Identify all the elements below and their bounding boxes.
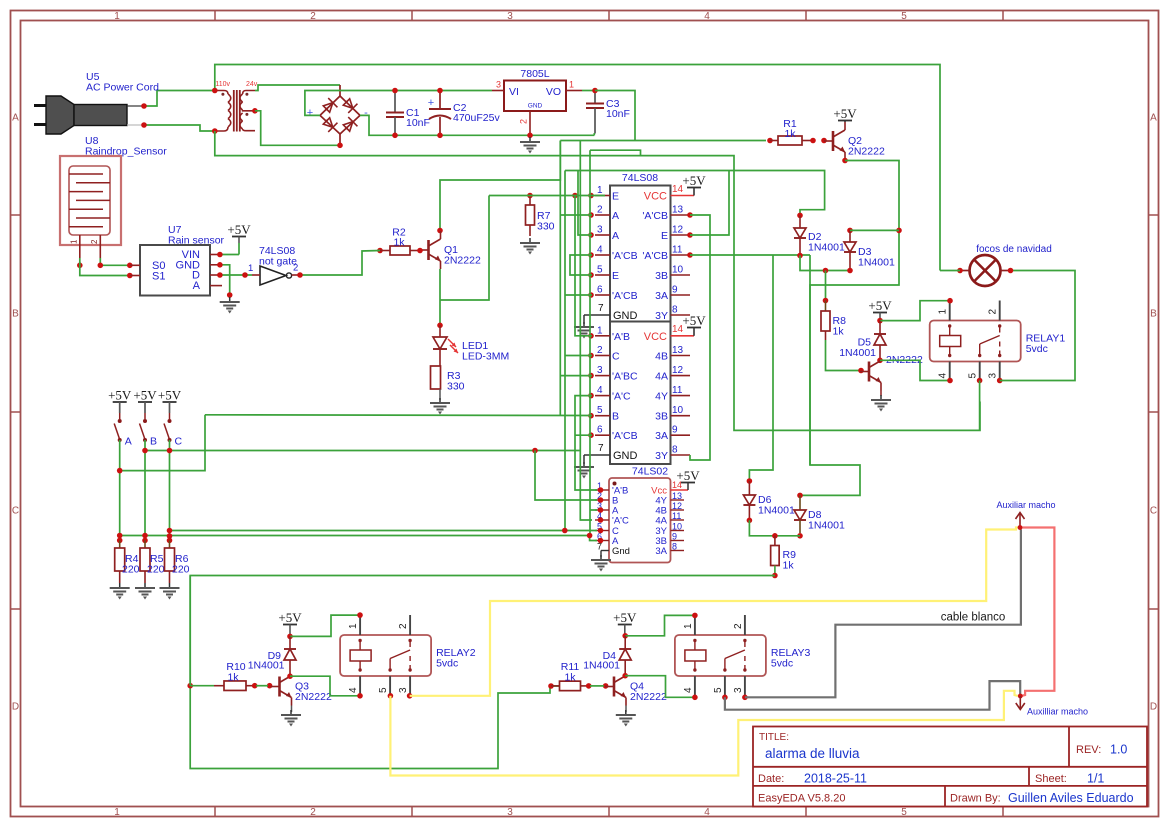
wire gray relay3 pin5 — [725, 681, 1020, 710]
svg-text:1N4001: 1N4001 — [808, 242, 845, 254]
svg-text:2: 2 — [519, 119, 529, 124]
svg-text:5: 5 — [597, 265, 603, 276]
svg-text:GND: GND — [613, 450, 638, 462]
wire v810 D8 top — [809, 255, 811, 465]
wire pin3 74LS02 — [590, 509, 597, 511]
ground U7 — [229, 297, 231, 302]
svg-text:+5V: +5V — [833, 106, 857, 121]
relay RELAY2 — [340, 635, 431, 676]
resistor R7 — [529, 197, 531, 205]
wire yellow relay2 pin3 to aux connector — [410, 528, 1020, 696]
svg-text:110v: 110v — [215, 81, 230, 88]
wire primary bottom to long rail y155 — [215, 131, 980, 430]
transistor Q5 2N2222 — [868, 362, 871, 382]
svg-text:1N4001: 1N4001 — [248, 660, 285, 672]
svg-text:4: 4 — [704, 807, 710, 818]
svg-text:+5V: +5V — [278, 610, 302, 625]
svg-text:4: 4 — [348, 687, 359, 693]
svg-text:2N2222: 2N2222 — [444, 255, 481, 267]
connector Auxilliar macho bottom — [1018, 694, 1023, 699]
svg-text:'A'CB: 'A'CB — [612, 290, 638, 302]
node R10 junction — [187, 683, 193, 689]
wire switch B bus — [145, 450, 580, 452]
diode D6 1N4001 — [747, 478, 753, 484]
svg-text:1N4001: 1N4001 — [808, 520, 845, 532]
svg-text:1: 1 — [70, 239, 79, 244]
ground Q3 — [290, 710, 292, 715]
svg-text:1k: 1k — [784, 128, 796, 140]
svg-text:A: A — [12, 113, 19, 124]
svg-text:4: 4 — [597, 245, 603, 256]
wire plug to transformer primary top — [144, 91, 215, 107]
svg-text:13: 13 — [672, 345, 684, 356]
svg-text:EasyEDA V5.8.20: EasyEDA V5.8.20 — [758, 793, 845, 805]
svg-text:3: 3 — [597, 225, 603, 236]
svg-text:+5V: +5V — [868, 298, 892, 313]
wire collector to relay1 pin4 — [880, 360, 950, 380]
svg-text:'A'BC: 'A'BC — [612, 371, 638, 383]
wire collector to relay2 pin4 — [290, 676, 360, 696]
svg-text:3B: 3B — [655, 270, 668, 282]
svg-text:1k: 1k — [227, 672, 239, 684]
svg-text:1: 1 — [348, 623, 359, 629]
wire Q2 emitter down right bus — [800, 161, 899, 496]
node switch junctions — [142, 448, 148, 454]
node IC1 right pins — [687, 212, 693, 218]
wire pin5 74LS02 C bus — [170, 530, 597, 532]
node Q2 emitter — [842, 158, 848, 164]
svg-text:'A'CB: 'A'CB — [642, 250, 668, 262]
svg-text:9: 9 — [672, 285, 678, 296]
resistor R1 — [767, 138, 773, 144]
svg-text:A: A — [612, 230, 619, 242]
svg-text:'A'C: 'A'C — [612, 516, 629, 527]
svg-text:220: 220 — [122, 564, 140, 576]
svg-text:alarma de lluvia: alarma de lluvia — [765, 746, 860, 761]
svg-text:C: C — [612, 351, 620, 363]
wire secondary top to bridge — [255, 85, 340, 91]
svg-text:+5V: +5V — [676, 468, 700, 483]
svg-text:7: 7 — [598, 443, 604, 454]
svg-text:5: 5 — [713, 687, 724, 693]
wire VIN — [220, 254, 239, 256]
wire U8 pin1 to S1 — [80, 258, 130, 276]
relay RELAY1 — [930, 321, 1021, 362]
svg-text:E: E — [612, 191, 619, 203]
node 7805 gnd — [527, 133, 533, 139]
wire top rail — [215, 65, 940, 271]
svg-text:2N2222: 2N2222 — [630, 691, 667, 703]
svg-text:1: 1 — [248, 263, 253, 274]
wire yellow relay2 pin5 bottom run — [390, 691, 1018, 776]
wire pin2 IC2 — [565, 355, 592, 357]
wire plug to transformer primary bottom — [144, 125, 215, 131]
svg-text:C: C — [12, 506, 19, 517]
svg-text:12: 12 — [672, 225, 684, 236]
svg-text:AC Power Cord: AC Power Cord — [86, 82, 159, 94]
wire v580 — [580, 141, 592, 521]
wire D6 D8 bottoms to R9 — [749, 520, 800, 536]
wire IC1 pin12 up — [690, 171, 729, 236]
ground R6 — [169, 583, 171, 588]
ground IC2 pin7 — [583, 455, 585, 464]
svg-text:+5V: +5V — [227, 222, 251, 237]
svg-text:D: D — [12, 702, 19, 713]
capacitor C1 — [394, 92, 396, 113]
svg-text:1: 1 — [683, 623, 694, 629]
svg-text:2018-25-11: 2018-25-11 — [804, 772, 867, 786]
ground R5 — [144, 583, 146, 588]
svg-text:2N2222: 2N2222 — [295, 691, 332, 703]
node relay3 pins — [692, 613, 698, 619]
svg-text:+: + — [428, 97, 434, 109]
ground R7 — [529, 238, 531, 243]
svg-text:+5V: +5V — [158, 388, 182, 403]
diode D5 1N4001 — [879, 321, 881, 334]
wire v590 bus — [589, 150, 591, 535]
title block — [753, 727, 1147, 807]
svg-text:B: B — [150, 436, 157, 448]
svg-text:A: A — [612, 210, 619, 222]
node transformer pins — [212, 88, 218, 94]
svg-text:5: 5 — [378, 687, 389, 693]
resistor R9 — [774, 536, 776, 546]
svg-text:focos de navidad: focos de navidad — [976, 244, 1052, 255]
wire IC1 pin13 to IC2 pin8 — [690, 215, 710, 460]
relay RELAY3 — [675, 635, 766, 676]
svg-text:8: 8 — [672, 305, 678, 316]
wire v565 bus — [564, 171, 566, 531]
svg-text:5vdc: 5vdc — [1026, 343, 1048, 355]
svg-text:2: 2 — [90, 239, 99, 244]
svg-text:C: C — [175, 436, 183, 448]
node U8 pins — [77, 263, 83, 269]
svg-text:VCC: VCC — [644, 331, 667, 343]
svg-text:13: 13 — [672, 205, 684, 216]
wire v560 bus — [559, 141, 561, 416]
svg-text:2: 2 — [293, 263, 298, 274]
svg-text:B: B — [12, 309, 19, 320]
wire IC1 pin11 right — [690, 254, 810, 256]
svg-text:S1: S1 — [152, 270, 165, 282]
node bridge bottom — [337, 143, 343, 149]
wire A bus to pin6 74LS02 — [120, 536, 597, 541]
wire relay1 pin5 down — [979, 381, 981, 431]
svg-text:+5V: +5V — [682, 173, 706, 188]
svg-text:11: 11 — [672, 385, 683, 396]
svg-text:220: 220 — [172, 564, 190, 576]
svg-text:VO: VO — [546, 86, 561, 98]
svg-text:5: 5 — [901, 807, 907, 818]
wire lamp left to top rail — [940, 270, 960, 272]
ground 7805 — [529, 137, 531, 142]
svg-text:REV:: REV: — [1076, 744, 1101, 756]
svg-text:+5V: +5V — [613, 610, 637, 625]
wire switch A to bus — [120, 415, 205, 471]
diode D4 1N4001 — [624, 636, 626, 649]
transistor Q2 2N2222 — [832, 131, 835, 151]
wire bridge - to bottom rail — [360, 115, 594, 135]
svg-text:2N2222: 2N2222 — [848, 146, 885, 158]
svg-text:1k: 1k — [564, 672, 576, 684]
svg-text:A: A — [1150, 113, 1157, 124]
svg-text:11: 11 — [672, 511, 681, 521]
svg-text:Drawn By:: Drawn By: — [950, 793, 1001, 805]
svg-text:3: 3 — [988, 373, 999, 379]
svg-text:8: 8 — [672, 445, 678, 456]
svg-text:7: 7 — [598, 303, 604, 314]
resistor R11 — [548, 683, 554, 689]
bridge rectifier B1 — [339, 85, 341, 96]
svg-text:1k: 1k — [393, 237, 405, 249]
svg-text:3: 3 — [507, 11, 513, 22]
svg-text:-: - — [364, 107, 368, 119]
svg-text:cable blanco: cable blanco — [941, 612, 1006, 624]
node IC2 left pins — [588, 333, 594, 339]
svg-text:2: 2 — [733, 623, 744, 629]
svg-text:B: B — [612, 411, 619, 423]
ground 74LS02 — [600, 551, 602, 558]
svg-text:1N4001: 1N4001 — [583, 660, 620, 672]
wire VO to R1 rail — [595, 91, 635, 141]
diode D2 1N4001 — [797, 213, 803, 219]
svg-text:3Y: 3Y — [655, 310, 668, 322]
svg-text:E: E — [612, 270, 619, 282]
svg-text:E: E — [661, 230, 668, 242]
svg-text:VCC: VCC — [644, 191, 667, 203]
svg-text:4A: 4A — [655, 516, 667, 527]
node relay1 pins — [947, 298, 953, 304]
svg-text:A: A — [193, 280, 201, 292]
wire pink aux to aux — [1020, 528, 1054, 697]
wire relay1 pin3 to lamp right — [1000, 271, 1075, 381]
svg-text:3: 3 — [507, 807, 513, 818]
wire Q1 collector — [440, 141, 560, 231]
node VO — [592, 88, 598, 94]
wire B bus to pin2 74LS02 — [535, 451, 597, 501]
svg-text:Date:: Date: — [758, 773, 784, 785]
svg-text:Auxiliar macho: Auxiliar macho — [996, 500, 1055, 510]
svg-text:1N4001: 1N4001 — [858, 257, 895, 269]
svg-text:C: C — [1150, 506, 1157, 517]
ground R3 — [439, 398, 441, 403]
svg-text:3A: 3A — [655, 546, 667, 557]
node junction D3 top bus — [896, 228, 902, 234]
wire collector to relay3 pin4 — [625, 676, 695, 698]
wire bus y170 D2 — [565, 171, 825, 214]
node Q3 collector — [287, 673, 293, 679]
wire secondary tap to bridge bottom — [255, 111, 340, 146]
wire gate out to R2 — [300, 251, 380, 276]
transistor Q1 2N2222 — [427, 240, 430, 260]
svg-text:12: 12 — [672, 365, 684, 376]
node R9 bottom — [772, 573, 778, 579]
node 74LS02 left pins — [598, 487, 604, 493]
svg-text:1N4001: 1N4001 — [839, 347, 876, 359]
svg-text:8: 8 — [672, 542, 677, 552]
capacitor C3 — [594, 92, 596, 104]
svg-text:Guillen Aviles Eduardo: Guillen Aviles Eduardo — [1008, 791, 1134, 805]
svg-text:5: 5 — [597, 405, 603, 416]
svg-text:1N4001: 1N4001 — [758, 505, 795, 517]
svg-text:13: 13 — [672, 491, 682, 501]
ground Q5 — [880, 395, 882, 400]
svg-text:2: 2 — [310, 807, 316, 818]
svg-text:74LS08: 74LS08 — [622, 172, 658, 184]
resistor R6 — [169, 540, 171, 548]
diode D3 1N4001 — [847, 228, 853, 234]
wire D3 top to Q2 emitter bus — [850, 229, 899, 231]
regulator U6 7805L — [504, 81, 566, 112]
IC U1 74LS08 block1 — [610, 186, 671, 322]
resistor R8 — [825, 271, 827, 299]
resistor R4 — [119, 540, 121, 548]
wire R8 to base — [826, 340, 862, 371]
node bus — [823, 268, 829, 274]
svg-text:2: 2 — [597, 205, 603, 216]
svg-text:11: 11 — [672, 245, 683, 256]
svg-text:3: 3 — [733, 687, 744, 693]
wire pin3 IC2 — [560, 375, 592, 377]
svg-text:330: 330 — [537, 221, 555, 233]
node base — [858, 368, 864, 374]
svg-text:4A: 4A — [655, 371, 668, 383]
svg-text:4: 4 — [704, 11, 710, 22]
node relay2 pins — [357, 612, 363, 618]
node Q4 collector — [622, 673, 628, 679]
svg-text:220: 220 — [147, 564, 165, 576]
svg-text:3: 3 — [398, 687, 409, 693]
svg-text:470uF25v: 470uF25v — [453, 112, 500, 124]
wire Q1 emitter chain — [439, 269, 441, 323]
wire switch columns — [119, 440, 121, 538]
svg-text:2: 2 — [398, 623, 409, 629]
wire pin6 IC1 — [565, 294, 592, 296]
svg-text:7805L: 7805L — [520, 68, 549, 80]
wire bridge + to VI rail — [305, 91, 492, 116]
node R9 top — [772, 533, 778, 539]
wire v578 pin3 — [578, 171, 592, 236]
transistor Q4 2N2222 — [613, 677, 616, 697]
svg-text:1.0: 1.0 — [1110, 743, 1127, 757]
wire pin4-pin5 jog IC1 — [570, 255, 592, 275]
resistor R2 — [377, 248, 383, 254]
svg-text:GND: GND — [613, 310, 638, 322]
resistor R5 — [144, 540, 146, 548]
svg-text:VI: VI — [509, 86, 519, 98]
diode D8 1N4001 — [797, 493, 803, 499]
IC U2 74LS08 block2 — [610, 322, 671, 465]
svg-text:1: 1 — [597, 185, 603, 196]
svg-text:+: + — [307, 107, 313, 119]
svg-text:1: 1 — [938, 309, 949, 315]
wire v773 to D6 — [749, 255, 773, 479]
wire pin4 IC2 v575b — [575, 396, 597, 490]
svg-text:not gate: not gate — [259, 256, 297, 268]
wire D2 bottom bus — [800, 256, 850, 271]
svg-text:+5V: +5V — [682, 313, 706, 328]
resistor R10 — [214, 685, 224, 687]
svg-text:D: D — [1150, 702, 1157, 713]
transformer T1 — [215, 91, 228, 95]
wire D to gate — [220, 274, 252, 276]
svg-text:4: 4 — [938, 373, 949, 379]
svg-text:5: 5 — [968, 373, 979, 379]
svg-text:4: 4 — [597, 385, 603, 396]
wire pin2 IC1 — [560, 214, 592, 216]
diode D9 1N4001 — [289, 636, 291, 649]
svg-text:3Y: 3Y — [655, 450, 668, 462]
node Q1 collector — [437, 228, 443, 234]
svg-text:3A: 3A — [655, 290, 668, 302]
node D5 bottom collector — [877, 358, 883, 364]
svg-text:2: 2 — [597, 345, 603, 356]
svg-text:Gnd: Gnd — [612, 546, 630, 557]
svg-text:10: 10 — [672, 405, 684, 416]
wire +5V to relay1 pin1 — [880, 301, 950, 321]
wire pin6 IC2 — [575, 434, 592, 436]
ground R4 — [119, 583, 121, 588]
svg-text:3A: 3A — [655, 430, 668, 442]
svg-text:1k: 1k — [783, 560, 795, 572]
svg-text:1: 1 — [569, 80, 574, 90]
svg-text:4Y: 4Y — [655, 391, 668, 403]
svg-text:A: A — [125, 436, 132, 448]
ground Q4 — [625, 710, 627, 715]
svg-text:2: 2 — [310, 11, 316, 22]
wire +5V to relay3 pin1 — [625, 615, 695, 635]
node plug pins — [141, 103, 147, 109]
svg-text:10: 10 — [672, 265, 684, 276]
svg-text:5vdc: 5vdc — [436, 658, 458, 670]
svg-text:1: 1 — [597, 325, 603, 336]
node lamp pins — [957, 268, 963, 274]
svg-text:330: 330 — [447, 381, 465, 393]
svg-text:Sheet:: Sheet: — [1035, 773, 1067, 785]
svg-text:6: 6 — [597, 285, 603, 296]
svg-text:'A'B: 'A'B — [612, 331, 630, 343]
svg-text:'A'CB: 'A'CB — [642, 210, 668, 222]
ground IC1 pin7 — [583, 315, 585, 324]
wire U8 pin2 to S0 — [100, 258, 130, 265]
transistor Q3 2N2222 — [278, 677, 281, 697]
svg-text:12: 12 — [672, 501, 682, 511]
wire v575a — [575, 196, 592, 336]
wire R9 bottom rail to R10 R11 — [190, 576, 775, 769]
svg-text:1: 1 — [114, 807, 120, 818]
svg-text:10: 10 — [672, 522, 682, 532]
svg-text:3: 3 — [496, 80, 501, 90]
svg-text:'A'CB: 'A'CB — [612, 430, 638, 442]
svg-text:LED-3MM: LED-3MM — [462, 351, 509, 363]
resistor R3 — [431, 366, 441, 389]
node IC1 left pins — [588, 193, 594, 199]
wire U7 GND — [220, 265, 230, 295]
svg-text:4: 4 — [683, 687, 694, 693]
wire +5V to relay2 pin1 — [290, 615, 360, 636]
svg-text:74LS02: 74LS02 — [632, 466, 668, 478]
wire rail y150 jog — [590, 150, 641, 155]
svg-text:TITLE:: TITLE: — [759, 732, 789, 743]
wire R7 pin1 E net — [489, 195, 605, 197]
svg-text:+5V: +5V — [133, 388, 157, 403]
svg-text:2: 2 — [988, 309, 999, 315]
svg-text:1: 1 — [114, 11, 120, 22]
svg-text:+5V: +5V — [108, 388, 132, 403]
svg-text:GND: GND — [528, 103, 543, 110]
svg-text:24v: 24v — [246, 81, 258, 88]
LED1 — [439, 325, 441, 337]
